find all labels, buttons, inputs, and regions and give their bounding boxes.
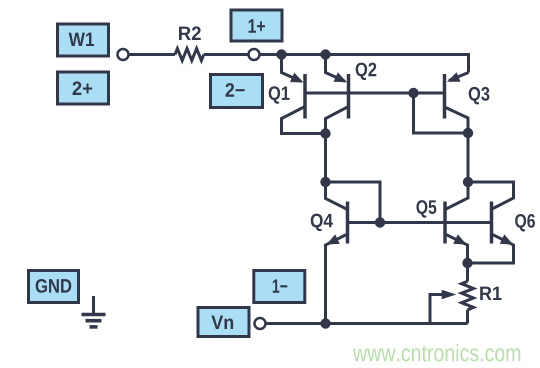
watermark [353, 344, 520, 362]
label R1 [480, 287, 501, 300]
terminal Vn [255, 318, 266, 329]
arrowhead Q6 emitter [500, 234, 514, 244]
resistor R1 [462, 281, 474, 310]
junction dot node B [463, 177, 473, 187]
arrowhead R1 wiper [442, 290, 457, 300]
wire top rail from 1+ terminal to Q3 emitter corner [260, 55, 468, 73]
junction dot bottom rail [320, 318, 330, 328]
wire R2 to 1+ terminal [204, 53, 248, 56]
terminal W1 [118, 49, 129, 60]
wire Q6 collector [468, 182, 514, 209]
wire Q3 node down [467, 133, 470, 182]
wire W1 terminal to R2 [130, 53, 176, 56]
junction dot Q4 base [375, 217, 385, 227]
label Q6 [515, 214, 535, 231]
label box 1+ [231, 10, 282, 41]
junction dot Q1 Q2 collectors [320, 128, 330, 138]
label box GND [29, 271, 79, 303]
wire Q3 collector [445, 107, 469, 133]
label box 2+ [58, 72, 109, 104]
junction dot Q5 Q6 emitters [462, 258, 472, 268]
wire base rail Q1 Q2 Q3 [305, 92, 445, 95]
terminal 1+ [249, 49, 260, 60]
arrowhead Q3 emitter [447, 72, 461, 82]
wire Q1Q2 collector node down [324, 134, 327, 183]
wire base rail Q4 Q5 Q6 [348, 221, 492, 224]
wire R1 wiper arrow line [430, 295, 444, 324]
arrowhead Q5 emitter [453, 234, 467, 244]
label R2 [179, 26, 201, 40]
wire Q2 emitter [326, 55, 346, 82]
wire Q6 emitter [468, 234, 514, 263]
resistor R2 [175, 49, 204, 61]
label box W1 [58, 24, 109, 56]
label box Vn [198, 308, 249, 337]
wire Q4 base-collector tie [326, 182, 381, 223]
label Q2 [356, 63, 377, 80]
wire Q1 emitter [282, 55, 302, 82]
transistor Q5 base bar [443, 202, 447, 244]
wire Q4 collector [326, 182, 348, 210]
transistor Q1 base bar [303, 74, 307, 119]
label Q5 [416, 200, 436, 217]
junction dot top rail Q1 [276, 49, 286, 59]
wire Q3 emitter diagonal [449, 73, 469, 81]
wire node to R1 [466, 263, 469, 281]
transistor Q3 base bar [443, 74, 447, 119]
label Q1 [269, 86, 290, 103]
label Q3 [469, 87, 490, 104]
wire Q1 collector [282, 107, 326, 134]
arrowhead Q1 emitter [290, 73, 304, 83]
wire Q2 collector [326, 107, 349, 134]
wire bottom rail Vn [267, 322, 468, 325]
junction dot base rail tie [408, 88, 418, 98]
junction dot node A [320, 177, 330, 187]
transistor Q4 base bar [346, 202, 350, 244]
label box 2- [211, 75, 263, 108]
arrowhead Q2 emitter [334, 72, 348, 82]
label box 1- [254, 271, 305, 303]
label Q4 [311, 214, 333, 231]
wire Q5 collector [446, 182, 468, 209]
transistor Q2 base bar [347, 74, 351, 119]
ground [82, 296, 106, 327]
wire Q3 base-collector tie [414, 93, 469, 133]
wire Q5 emitter [445, 234, 468, 263]
wire Q4 emitter [326, 234, 348, 324]
junction dot top rail Q2 [320, 49, 330, 59]
arrowhead Q4 emitter [326, 234, 340, 244]
wire R1 bottom to rail [466, 310, 469, 324]
transistor Q6 base bar [490, 202, 494, 244]
junction dot Q3 collector tie [463, 128, 473, 138]
